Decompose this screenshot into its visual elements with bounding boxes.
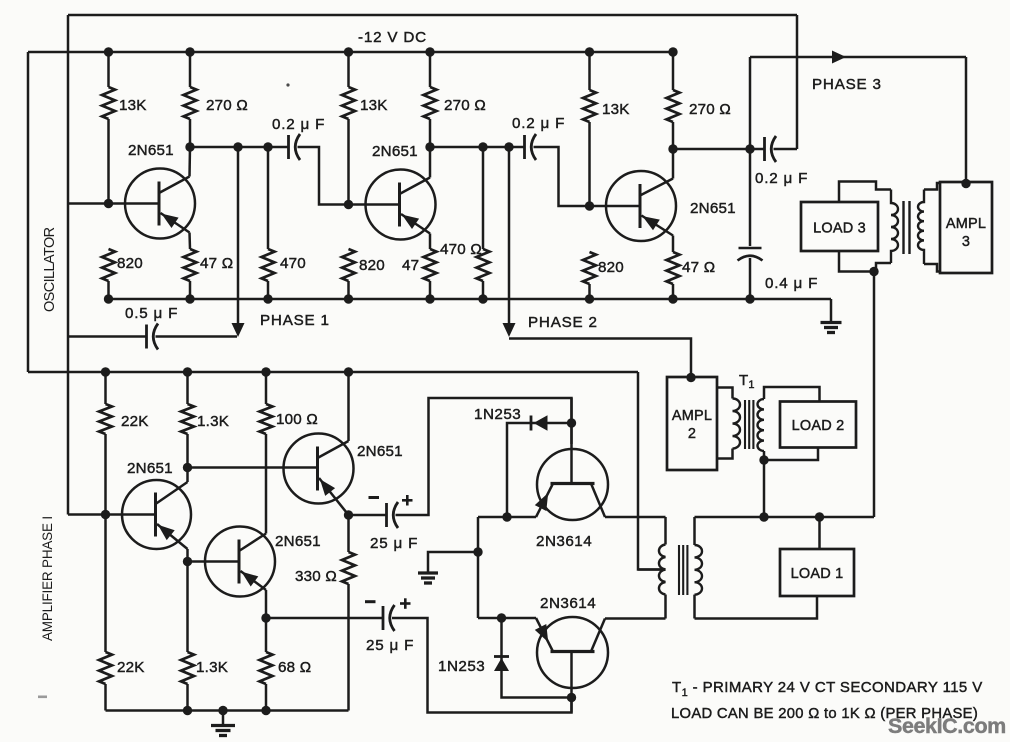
transistor Q5 2N651 [205,527,275,597]
svg-text:T1 - PRIMARY 24 V CT SECONDARY: T1 - PRIMARY 24 V CT SECONDARY 115 V [672,679,983,699]
wire ground stub amp [222,711,225,726]
svg-text:LOAD 3: LOAD 3 [813,221,866,237]
svg-text:820: 820 [598,259,624,276]
wire Qu collector to primary [605,516,666,519]
resistor R9 47 [424,249,437,281]
svg-text:820: 820 [359,257,385,274]
wire primary bottom [664,595,667,619]
transistor Q2 2N651 [366,170,436,240]
node bus ground dot [473,547,482,556]
resistor R1 13K [102,87,115,119]
svg-text:2: 2 [688,426,696,442]
wire R14 to rail [672,284,675,299]
wire stage2 collector line [430,146,525,149]
wire C2 output [534,147,590,206]
svg-text:3: 3 [962,234,970,250]
node D1 base dot [567,418,576,427]
transformer output core [678,545,680,595]
wire R15 to base [104,434,107,515]
wire phase3 to AMPL3 [965,57,968,183]
wire C7 output [392,618,572,713]
resistor R12 270 [667,90,680,122]
wire R11 to base [588,122,591,206]
node rail dots stage3 [585,294,594,303]
resistor R12 270 lead [672,52,675,90]
ground [418,571,438,574]
wire R17 to collector [265,434,268,534]
resistor R17 100 lead [265,372,268,404]
svg-text:13K: 13K [119,97,147,114]
wire ground tap [428,552,478,573]
node 470 tap dot [263,142,272,151]
node T1 bottom dot [759,455,768,464]
node amplifier supply rail [28,371,638,374]
svg-text:2N651: 2N651 [357,443,403,460]
capacitor C2 0.2uF [523,135,526,159]
svg-text:AMPL: AMPL [946,216,986,232]
svg-text:PHASE 2: PHASE 2 [528,314,598,331]
svg-text:2N651: 2N651 [372,143,418,160]
resistor R7 270 [424,87,437,119]
node phase2 arrow [503,323,516,337]
svg-text:68 Ω: 68 Ω [278,659,311,676]
diode D1 1N253 branch [507,423,572,517]
wire LOAD1 riser [818,517,821,549]
svg-text:470: 470 [280,255,306,272]
block LOAD 1 [780,549,854,596]
capacitor C4 0.5uF wire [68,335,147,338]
wire R16 to node [186,434,189,468]
svg-text:OSCILLATOR: OSCILLATOR [42,227,58,312]
label C6 plus [402,499,413,502]
capacitor C3 0.2uF [763,137,766,161]
wire Q4 base [68,513,156,516]
node amp rail dots [101,367,110,376]
svg-text:270 Ω: 270 Ω [689,101,731,118]
resistor R1 13K lead [107,52,110,87]
resistor R4 47ohm [184,249,197,281]
wire T1 primary bottom stub [717,449,733,459]
wire Q3 base [590,205,641,208]
resistor R8 820 [342,249,355,281]
wire R8 to rail [347,281,350,299]
node Q6 emitter dot [344,510,353,519]
wire C4 to phase1 [156,335,238,338]
wire Q6 emitter to C6 [349,514,387,517]
block LOAD 3 [801,202,878,251]
svg-text:PHASE 3: PHASE 3 [812,76,882,93]
transistor Q8 2N3614 [537,617,608,688]
ground [821,321,842,324]
svg-text:-12 V DC: -12 V DC [358,29,427,46]
capacitor C5 0.4uF wire [749,149,752,246]
transformer output secondary winding [695,545,702,595]
wire T1 secondary bottom [763,451,766,460]
svg-text:47: 47 [402,257,419,274]
wire LOAD1 bottom [695,596,818,619]
transformer T1 secondary winding [758,399,764,451]
node diode bottom dot [497,613,506,622]
resistor R14 47 [667,252,680,284]
transformer LOAD3 core [902,201,904,254]
label C7 plus [400,602,411,605]
svg-text:270 Ω: 270 Ω [444,97,486,114]
svg-text:SeekIC.com: SeekIC.com [888,714,1006,738]
wire R2 to collector [189,119,192,147]
node phase1 tap dot [233,142,242,151]
wire left feedback vertical [67,15,70,515]
resistor R16 1.3K lead [186,372,189,404]
wire C6 output [396,398,572,515]
wire Ql collector to primary [605,617,666,620]
svg-text:T1: T1 [739,372,755,391]
transistor Q1 2N651 [125,169,195,239]
svg-text:0.2 μ F: 0.2 μ F [755,170,808,187]
svg-text:330 Ω: 330 Ω [295,568,337,585]
node Q4 base dot [101,510,110,519]
wire phase2 drop [508,147,511,324]
scan smudge [38,696,47,699]
svg-text:1N253: 1N253 [438,658,485,675]
wire feedback right drop [796,15,799,149]
wire center-tap drop [638,372,666,570]
node amp ground rail [106,709,349,712]
wire Q4-collector to Q6 base [188,466,318,469]
resistor R20 330 [347,515,350,552]
svg-text:2N651: 2N651 [128,142,174,159]
block AMPL 3 [940,182,992,273]
node Q4 collector dot [183,463,192,472]
svg-text:13K: 13K [602,101,630,118]
block LOAD 2 [780,402,856,448]
transformer LOAD3 secondary winding [918,190,924,265]
node stage2 collector dot [425,142,434,151]
svg-text:1.3K: 1.3K [196,659,228,676]
wire R3 to rail [107,281,110,299]
node stage1 collector dot [185,142,194,151]
svg-text:LOAD 2: LOAD 2 [792,418,845,434]
wire Q5 base [188,560,239,563]
wire emitter bus bottom [478,617,536,620]
resistor R18 1.3K lower [186,562,189,653]
diode D1 1N253 [530,416,533,431]
svg-text:AMPLIFIER PHASE I: AMPLIFIER PHASE I [40,516,55,641]
wire top feedback line [68,14,797,17]
node stage3 collector dot [668,144,677,153]
wire primary center tap [638,568,666,571]
wire T1 center drop [763,460,766,517]
diode D2 1N253 branch [502,618,572,698]
node Q2 base dot [344,200,353,209]
resistor R11 13K [583,90,596,122]
wire primary top [664,517,667,545]
svg-text:0.2 μ F: 0.2 μ F [272,116,325,133]
node 470-2 tap dot [478,142,487,151]
node rail dots stage2 [344,294,353,303]
svg-text:47 Ω: 47 Ω [682,259,715,276]
wire R9 to rail [429,281,432,299]
svg-text:2N3614: 2N3614 [540,595,596,612]
node rail dots stage1 [104,294,113,303]
resistor R21 68 lower [265,618,268,652]
node C5 rail dot [745,294,754,303]
capacitor C4 0.5uF [145,325,148,349]
resistor R19 22K lower [104,515,107,653]
node AMPL3 input dot [961,179,970,188]
svg-text:25 μ F: 25 μ F [370,535,418,552]
wire phase3 riser [749,57,752,149]
capacitor C7 25uF [382,606,385,630]
wire LOAD3 junction drop [873,272,876,518]
capacitor C5 0.4uF [739,247,762,250]
node diode top dot [502,512,511,521]
svg-text:25 μ F: 25 μ F [366,637,414,654]
wire R4 to rail [189,281,192,299]
transformer output primary winding [659,545,666,595]
wire emitter bus top [478,516,536,519]
wire Q1 base [68,202,159,205]
resistor R2 270 [184,87,197,119]
wire LOAD3 secondary bottom stub [924,264,940,272]
resistor R15 22K lead [104,372,107,404]
svg-text:1.3K: 1.3K [197,413,229,430]
transistor Q3 2N651 [606,171,676,241]
resistor R2 270ohm lead [189,52,192,87]
node stage2 supply dots [344,47,353,56]
svg-text:47 Ω: 47 Ω [200,255,233,272]
node oscillator ground rail [109,298,832,301]
node Q3 base dot [585,201,594,210]
scan speck [286,83,289,86]
node Q4 emitter dot [183,557,192,566]
resistor R5 470 [267,147,270,249]
wire stage3 collector line [673,148,765,151]
wire phase1 drop [237,147,240,324]
block AMPL 2 [667,377,717,470]
wire phase3 line [750,56,966,59]
svg-text:2N3614: 2N3614 [536,533,592,550]
resistor R10 470 [482,147,485,249]
node bus dots [759,512,768,521]
svg-text:0.4 μ F: 0.4 μ F [765,275,818,292]
svg-text:22K: 22K [121,413,149,430]
node Q5 emitter dot [261,613,270,622]
wire T1 bottom to LOAD2 [764,448,818,461]
transistor Q7 2N3614 [537,449,608,520]
svg-text:0.5 μ F: 0.5 μ F [125,305,178,322]
resistor R17 100 [260,404,273,434]
capacitor C1 0.2uF [287,135,290,159]
wire phase2 to AMPL2 [509,339,691,378]
node phase2 tap dot [504,142,513,151]
wire LOAD3 loop bottom [839,251,891,272]
svg-text:13K: 13K [360,97,388,114]
transformer T1 primary winding [733,399,741,449]
wire emitter bus left [477,517,480,618]
svg-text:820: 820 [117,255,143,272]
node 0.4uF tap dot [745,144,754,153]
wire C5 to rail [749,258,752,299]
wire C1 output [298,147,349,205]
wire LOAD3 loop top [839,182,891,203]
resistor R16 1.3K [181,404,194,434]
wire T1 primary top stub [717,388,733,399]
wire Q6 collector to rail [347,372,350,441]
resistor R6 13K [342,87,355,119]
transistor Q7 2N3614 base wire [570,398,573,449]
wire ground stub right [830,299,833,322]
node AMPL2 input dot [686,373,695,382]
label C6 minus [369,496,380,499]
wire secondary top stub [693,517,696,545]
ground [211,724,235,727]
wire left border [27,52,30,372]
svg-text:270 Ω: 270 Ω [206,97,248,114]
svg-text:1N253: 1N253 [474,406,521,423]
svg-text:AMPL: AMPL [672,408,712,424]
wire R7 to collector [429,119,432,147]
wire R1 to base [107,119,110,204]
node stage3 supply dots [585,47,594,56]
svg-text:2N651: 2N651 [690,200,736,217]
node -12V rail [28,51,673,54]
wire stage1 collector line [190,146,289,149]
capacitor C6 25uF [385,503,388,527]
svg-text:100 Ω: 100 Ω [276,411,318,428]
svg-text:LOAD 1: LOAD 1 [791,566,844,582]
label C7 minus [365,600,376,603]
diode D2 1N253 [494,655,509,658]
resistor R3 820 [102,249,115,281]
wire R12 to collector [672,122,675,149]
resistor R15 22K [99,404,112,434]
node Q8 base dot [567,693,576,702]
wire C3 output [774,148,798,151]
svg-text:2N651: 2N651 [127,460,173,477]
wire R6 to base [347,119,350,205]
svg-text:0.2 μ F: 0.2 μ F [512,115,565,132]
transistor Q4 2N651 [122,480,191,549]
svg-text:2N651: 2N651 [275,533,321,550]
wire secondary bus [695,516,875,519]
resistor R7 270 lead [429,52,432,87]
wire secondary bottom stub [693,595,696,619]
node stage1 supply dots [104,47,113,56]
resistor R6 13K lead [347,52,350,87]
transformer T1 core [744,400,746,449]
svg-text:PHASE 1: PHASE 1 [260,312,330,329]
wire R13 to rail [588,284,591,299]
svg-text:470 Ω: 470 Ω [440,241,482,258]
resistor R13 820 [583,252,596,284]
node phase3 arrow [832,51,846,64]
node LOAD3 bottom junction [869,267,878,276]
wire Q2 base [349,203,400,206]
wire LOAD3 secondary top stub [924,183,940,190]
svg-text:22K: 22K [117,659,145,676]
node phase1 arrow [232,323,245,337]
transistor Q6 2N651 [284,434,354,504]
wire Q5 emitter to C7 [266,617,383,620]
resistor R11 13K lead [588,52,591,90]
transformer LOAD3 primary winding [891,190,898,264]
wire T1 secondary top to LOAD2 [764,387,820,402]
node amp rail bottom dots [183,706,192,715]
node Q1 base dot [104,199,113,208]
